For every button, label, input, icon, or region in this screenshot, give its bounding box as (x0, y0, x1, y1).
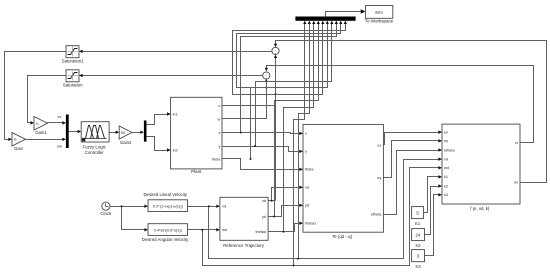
svg-text:Desired Lineal Velocity: Desired Lineal Velocity (143, 192, 187, 197)
svg-text:k1: k1 (444, 175, 448, 179)
svg-text:K-: K- (14, 137, 17, 141)
svg-text:etheta: etheta (371, 212, 382, 216)
svg-text:ey: ey (377, 176, 381, 180)
svg-text:etheta: etheta (444, 148, 455, 152)
svg-text:Te (qd - q): Te (qd - q) (332, 234, 353, 239)
svg-text:data: data (375, 9, 384, 14)
svg-text:in1: in1 (173, 112, 178, 116)
svg-text:xd: xd (305, 186, 309, 190)
svg-text:theta: theta (212, 157, 221, 161)
svg-text:K3: K3 (415, 264, 421, 269)
svg-text:thetad: thetad (255, 230, 266, 234)
svg-text:ey: ey (444, 139, 448, 143)
svg-text:ew: ew (57, 145, 62, 149)
svg-text:0.2*(1-exp(-u(1))): 0.2*(1-exp(-u(1))) (153, 203, 184, 208)
svg-text:Fuzzy Logic: Fuzzy Logic (82, 144, 106, 149)
svg-text:0.4*sin(0.5*u(1)): 0.4*sin(0.5*u(1)) (154, 227, 183, 232)
svg-text:in2: in2 (173, 148, 178, 152)
svg-text:v: v (218, 104, 220, 108)
svg-text:Plant: Plant (191, 169, 202, 174)
svg-text:Gain2: Gain2 (120, 140, 132, 145)
svg-text:thetad: thetad (305, 222, 316, 226)
svg-text:Saturation: Saturation (63, 83, 83, 88)
svg-text:Saturation1: Saturation1 (62, 59, 85, 64)
svg-text:Gain: Gain (14, 146, 24, 151)
svg-text:ev: ev (57, 115, 61, 119)
svg-text:vd: vd (222, 205, 226, 209)
svg-text:Controller: Controller (85, 150, 105, 155)
svg-text:24: 24 (416, 232, 421, 237)
svg-text:theta: theta (305, 168, 314, 172)
svg-text:w: w (218, 117, 221, 121)
svg-text:f (e, vd, k): f (e, vd, k) (470, 206, 490, 211)
svg-text:wd: wd (222, 228, 227, 232)
svg-text:wd: wd (444, 166, 449, 170)
svg-text:K2: K2 (415, 243, 421, 248)
svg-text:K-: K- (36, 122, 39, 126)
svg-text:yd: yd (262, 215, 266, 219)
svg-text:x: x (218, 131, 220, 135)
svg-text:ex: ex (377, 143, 381, 147)
svg-text:50: 50 (121, 131, 125, 135)
svg-text:Gain1: Gain1 (35, 130, 47, 135)
svg-text:vd: vd (444, 157, 448, 161)
svg-text:K1: K1 (415, 221, 421, 226)
svg-text:y: y (218, 144, 220, 148)
svg-text:y: y (305, 150, 307, 154)
svg-text:k2: k2 (444, 184, 448, 188)
svg-text:Clock: Clock (100, 211, 112, 216)
svg-text:k3: k3 (444, 193, 448, 197)
svg-text:Reference Trajectory: Reference Trajectory (223, 243, 265, 248)
svg-text:Desired Angular Velocity: Desired Angular Velocity (142, 237, 189, 242)
svg-text:x: x (305, 132, 307, 136)
svg-text:ex: ex (444, 130, 448, 134)
svg-text:xd: xd (262, 199, 266, 203)
svg-text:To Workspace: To Workspace (365, 19, 394, 24)
svg-text:yd: yd (305, 204, 309, 208)
